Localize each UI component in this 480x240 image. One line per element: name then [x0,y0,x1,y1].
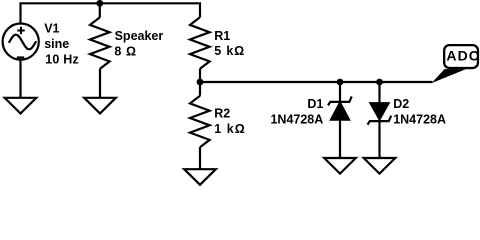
resistor Speaker (zigzag) [90,17,110,68]
zener diode D2 (cathode down) [368,103,392,124]
label R2: name and value (1 kohm) [214,107,245,137]
label V1: name and value (sine 10 Hz) [44,22,79,67]
node ADC: flag tail [432,69,467,83]
ground: below D2 [364,158,396,174]
node ADC: label text [446,48,479,64]
ground: below speaker [84,98,116,114]
zener diode D1 (cathode up) [328,97,352,120]
junction: node at D1 [337,79,344,86]
wire: D1 top lead [339,82,341,103]
wire: R2 bottom lead [199,147,201,169]
wire: D1 bottom lead [339,121,341,158]
node ADC: flag box [444,45,478,68]
junction: node at D2 [376,79,383,86]
svg-text:1 kΩ: 1 kΩ [214,122,245,136]
svg-text:1N4728A: 1N4728A [393,112,446,126]
wire: top rail from speaker junction to R1 [100,3,200,17]
wire: V1 top lead and top rail to speaker junction [21,3,100,23]
svg-text:10 Hz: 10 Hz [45,53,79,67]
svg-text:sine: sine [44,37,69,51]
wire: D2 bottom lead [378,121,380,158]
svg-text:D1: D1 [307,97,323,111]
label D1: name and value (1N4728A) [270,97,323,127]
voltage source V1 (circle with sine, + and -) [3,23,39,59]
wire: node to ADC flag [200,81,433,83]
svg-text:R1: R1 [214,29,230,43]
label R1: name and value (5 kohm) [214,29,244,58]
label Speaker: name and value (8 ohm) [114,29,163,58]
wire: speaker bottom lead [99,69,101,98]
ground: below R2 [184,169,216,185]
wire: node to R2 top [199,82,201,96]
svg-text:D2: D2 [393,97,409,111]
svg-text:V1: V1 [44,22,59,36]
svg-text:1N4728A: 1N4728A [270,112,323,126]
svg-text:ADC: ADC [446,48,479,64]
resistor R1 (zigzag) [190,17,210,68]
ground: below V1 [5,98,37,114]
wire: D2 top lead [378,82,380,103]
wire: speaker top lead [99,3,101,17]
ground: below D1 [324,158,356,174]
resistor R2 (zigzag) [190,96,210,147]
svg-text:8 Ω: 8 Ω [114,44,136,58]
label D2: name and value (1N4728A) [393,97,446,127]
junction: top rail at speaker [96,0,103,7]
svg-text:Speaker: Speaker [115,29,164,43]
svg-text:R2: R2 [214,107,230,121]
wire: V1 bottom lead [19,60,21,98]
svg-text:5 kΩ: 5 kΩ [214,44,244,58]
wire: R1 bottom lead to node [199,69,201,82]
junction: node between R1 and R2 [197,79,204,86]
